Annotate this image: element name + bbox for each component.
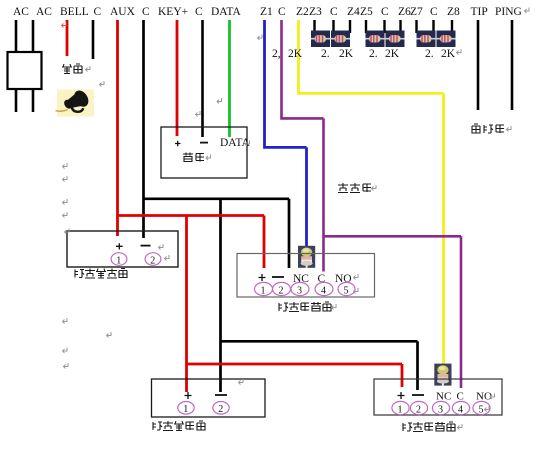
wire C z7z8 stub [432,20,434,33]
svg-text:Z1: Z1 [260,6,273,18]
svg-text:C: C [457,391,464,403]
receiver2 pin 5 [473,401,490,415]
receiver1 pin 5 [338,282,355,296]
wire Z4 stub [349,20,351,33]
svg-text:3: 3 [297,286,302,297]
wire C z5z6 stub [383,20,385,33]
svg-text:2.: 2. [369,48,378,60]
return mark above keypad [196,111,201,117]
return mark transmitter row1 [159,244,164,250]
svg-text:C: C [278,6,286,18]
receiver1 - terminal [272,276,284,278]
wire Z2 (yellow, to receiver2 NC via resistor) [297,20,443,366]
svg-text:Z3: Z3 [309,6,322,18]
return mark left margin 7 [64,363,69,369]
svg-text:Z2: Z2 [296,6,309,18]
phone line label (dian hua xian) [472,124,504,133]
receiver1 pin 2 [273,282,291,296]
receiver2 label (dui she jie shou qi) [403,422,455,432]
return mark after jing hao [86,66,91,72]
return mark after PING [525,8,530,14]
svg-text:BELL: BELL [60,6,89,18]
receiver2 pin 1 [392,401,409,415]
wire C aux return black net (to transmitter - / receiver1 - / floodlight - / receiver2 -) [142,20,417,392]
resistor pair R7/R8 (2.2K EOL, zones 7-8) [417,31,456,48]
wire C key return (black, to keypad -) [201,20,204,137]
floodlight pin 2 [213,402,229,416]
svg-text:NC: NC [436,391,451,403]
resistor pair R3/R4 (2.2K EOL, zones 3-4) [311,31,350,48]
wire C zone common (purple net, to receiver1 C and receiver2 C) [280,20,461,388]
receiver2 + terminal [398,392,405,399]
receiver2 pin 4 [452,401,469,415]
receiver2 pin 3 [432,401,449,415]
svg-text:AC: AC [36,6,52,18]
return mark receiver2 after NO [490,394,495,400]
wire Z6 stub [399,20,401,33]
receiver1 pin 1 [255,282,273,296]
svg-text:3: 3 [438,405,443,416]
svg-text:C: C [330,6,338,18]
floodlight pin 1 [178,402,194,416]
wire Z7 stub [415,20,417,33]
wire AC line 1 (to transformer) [15,20,18,112]
svg-text:C: C [94,6,102,18]
floodlight label (dui she tou guang qi) [153,421,205,431]
transmitter pin 2 [145,253,161,267]
svg-text:1: 1 [183,404,188,415]
svg-text:2K: 2K [339,48,354,60]
return mark left margin 5 [63,318,68,324]
svg-text:4: 4 [458,405,463,416]
wire Z1 (blue, to receiver1 NC via resistor) [263,20,306,247]
siren label (jing hao) [62,64,82,74]
svg-text:1: 1 [116,256,121,267]
wire TIP (phone line) [477,20,480,110]
svg-text:4: 4 [321,286,326,297]
return mark after gong gong xian [372,185,377,191]
return mark right of horn [100,81,105,87]
svg-text:5: 5 [344,286,349,297]
svg-text:2.: 2. [321,48,330,60]
svg-text:2K: 2K [441,48,456,60]
wire C z3z4 stub [332,20,334,33]
return mark after dian hua xian [507,126,512,132]
return mark receiver1 after label [332,304,337,310]
receiver2 pin 2 [410,401,427,415]
return mark left lower [107,332,112,338]
svg-text:NO: NO [476,391,492,403]
return mark receiver2 after label [458,424,463,430]
return mark floodlight box [239,379,244,385]
transmitter pin 1 [111,253,127,267]
svg-text:AUX: AUX [110,6,136,18]
return mark (red, near BELL) [62,22,67,28]
wire AUX power red net (to transmitter + / receiver1 + / floodlight + / receiver2 +) [116,20,402,392]
wire KEY+ (red, to keypad +) [176,20,179,136]
svg-text:2K: 2K [288,48,303,60]
return mark left margin 3 [63,199,68,205]
return mark left margin 6 [63,348,68,354]
wire Z3 stub [313,20,315,33]
return mark left margin 1 [63,163,68,169]
return mark after DATA (keypad) [245,141,250,147]
keypad U1 box [161,127,247,178]
receiver1 pin 3 [291,282,309,296]
svg-text:1: 1 [398,405,403,416]
svg-text:C: C [381,6,389,18]
return mark left margin 2 [63,176,68,182]
wire Z8 stub [451,20,453,33]
receiver1 + terminal [259,274,266,281]
beam receiver 2 box [374,379,502,415]
transformer T1 box [8,52,42,89]
receiver2 - terminal [412,394,424,396]
svg-text:1: 1 [261,286,266,297]
floodlight - terminal [215,394,227,396]
beam transmitter box [67,231,178,267]
wire DATA (green, to keypad DATA) [228,20,231,137]
return mark above keypad right [217,98,222,104]
svg-text:C: C [430,6,438,18]
svg-text:2: 2 [218,404,223,415]
return mark receiver1 after pin5 [354,288,359,294]
svg-text:DATA: DATA [211,6,241,18]
return mark receiver2 after pin5 [485,406,490,412]
return mark near Z1 wire [258,35,263,41]
wire C bell return (black) [92,20,95,59]
wire BELL (red, to siren) [66,20,69,56]
return mark left margin 4 [63,212,68,218]
value label 2.2K zone1-2 [272,48,456,60]
return mark transmitter row2 [165,255,170,261]
receiver1 EOL resistor photo (vertical) [298,246,315,268]
svg-text:Z4: Z4 [347,6,360,18]
beam receiver 1 box [237,254,375,298]
common line label (gong gong xian) [338,183,371,193]
receiver2 EOL resistor photo (vertical) [434,364,451,386]
svg-text:2.: 2. [425,48,434,60]
svg-text:AC: AC [13,6,29,18]
svg-text:5: 5 [479,405,484,416]
svg-text:C: C [142,6,150,18]
svg-text:TIP: TIP [471,6,488,18]
svg-text:2K: 2K [385,48,400,60]
svg-text:2: 2 [279,286,284,297]
beam floodlight box [152,379,266,417]
svg-text:C: C [195,6,203,18]
keypad + terminal [175,141,181,147]
receiver1 label (dui she jie shou qi) [279,302,331,312]
svg-text:KEY+: KEY+ [158,6,188,18]
svg-text:2,: 2, [272,48,281,60]
return mark at transmitter corner [65,229,70,235]
svg-text:2: 2 [416,405,421,416]
keypad - terminal [200,142,208,144]
keypad label (jian pan) [183,153,204,162]
svg-text:Z5: Z5 [360,6,373,18]
receiver1 pin 4 [315,282,333,296]
return mark after 2K zone7-8 [457,49,462,55]
svg-text:2: 2 [150,256,155,267]
return mark receiver1 after NO [354,274,359,280]
return mark after jian pan [206,155,211,161]
svg-text:Z7: Z7 [410,6,423,18]
svg-text:Z8: Z8 [447,6,460,18]
floodlight + terminal [185,392,192,399]
transmitter - terminal [141,245,151,247]
wire RING (phone line) [511,20,514,110]
wire Z5 stub [365,20,367,33]
svg-text:PING: PING [495,6,522,18]
wire AC line 2 (to transformer) [32,20,35,112]
transmitter + terminal [116,243,123,249]
resistor pair R5/R6 (2.2K EOL, zones 5-6) [366,31,405,48]
transmitter label (dui she fa she qi) [75,269,127,279]
